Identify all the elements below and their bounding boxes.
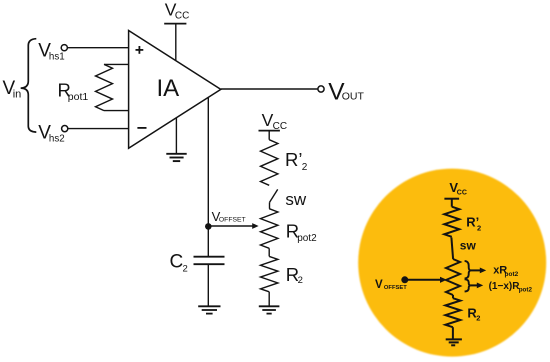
svg-text:2: 2 <box>298 275 303 286</box>
svg-text:pot1: pot1 <box>68 91 89 103</box>
wire arrow xRpot2 <box>471 269 481 271</box>
svg-text:OFFSET: OFFSET <box>384 285 407 291</box>
svg-text:(1−x)R: (1−x)R <box>489 281 521 292</box>
svg-text:C: C <box>170 252 184 273</box>
wire Rpot2 to R2 (inset) <box>452 295 454 298</box>
brace for Vin <box>21 39 37 132</box>
svg-text:2: 2 <box>302 162 308 173</box>
terminal Vhs1 <box>61 45 67 51</box>
ground (under IA) <box>166 154 186 161</box>
svg-text:sw: sw <box>460 238 477 252</box>
node VOFFSET label <box>212 209 246 224</box>
svg-text:hs2: hs2 <box>49 134 65 145</box>
pin - mark <box>137 127 146 129</box>
label C2 <box>170 252 188 275</box>
power VCC bar <box>164 23 186 25</box>
junction VOFFSET (inset) <box>401 276 408 283</box>
resistor Rpot1 <box>96 64 113 110</box>
terminal VOUT <box>318 86 324 92</box>
power VCC label (inset) <box>449 180 467 196</box>
brace lower (1-x)Rpot2 <box>465 279 471 291</box>
node Vin label <box>3 78 22 101</box>
svg-text:in: in <box>13 89 22 101</box>
node VOUT label <box>328 78 364 105</box>
svg-text:V: V <box>375 279 383 291</box>
node VOFFSET label (inset) <box>375 279 407 291</box>
wire + input <box>67 47 128 49</box>
ground (under C2) <box>198 306 220 313</box>
wire VCC to R'2 (inset) <box>451 199 453 207</box>
wire R2 to ground <box>268 292 270 306</box>
wire IA to ground <box>175 118 177 154</box>
svg-text:OFFSET: OFFSET <box>219 217 246 224</box>
terminal Vhs2 <box>62 126 68 132</box>
svg-text:pot2: pot2 <box>505 271 519 278</box>
wire arrow (1-x)Rpot2 <box>471 284 478 286</box>
wire - input <box>68 128 129 130</box>
svg-text:2: 2 <box>183 263 188 274</box>
wire wiper arrow <box>208 225 253 227</box>
resistor Rpot2 <box>261 209 278 249</box>
svg-text:pot2: pot2 <box>519 286 533 293</box>
svg-text:pot2: pot2 <box>297 233 317 244</box>
label Rpot2 <box>286 221 317 244</box>
node Vhs1 label <box>38 40 64 62</box>
wire sw to Rpot2 <box>269 202 271 208</box>
wire Rpot1 top stub <box>104 63 129 65</box>
wire output to VOFFSET node <box>207 98 209 256</box>
label R2 <box>286 264 303 286</box>
label Rpot1 <box>58 79 89 103</box>
svg-text:CC: CC <box>175 10 189 21</box>
inset highlight circle <box>358 169 546 357</box>
wire Rpot1 bottom stub <box>104 110 129 112</box>
power VCC label (over IA) <box>165 0 190 21</box>
switch sw blade (inset) <box>451 237 453 259</box>
wire Rpot2 to R2 <box>268 248 270 256</box>
power VCC label (chain) <box>262 110 287 132</box>
resistor R2 (inset) <box>445 298 460 327</box>
label (1-x)Rpot2 <box>489 281 533 294</box>
resistor R2 <box>261 256 278 291</box>
wire R2 to ground (inset) <box>452 327 454 339</box>
svg-text:OUT: OUT <box>342 91 365 103</box>
junction VOFFSET <box>205 223 212 230</box>
capacitor C2 <box>194 257 225 265</box>
wire output <box>221 88 318 90</box>
svg-text:hs1: hs1 <box>49 52 65 63</box>
brace upper xRpot2 <box>465 261 471 279</box>
switch sw blade <box>270 189 278 202</box>
label R2 (inset) <box>467 305 480 322</box>
node Vhs2 label <box>38 122 64 144</box>
op-amp IA triangle <box>129 31 221 149</box>
label R'2 (inset) <box>466 214 481 232</box>
svg-text:IA: IA <box>157 75 180 102</box>
ground (under R2) <box>259 306 280 313</box>
resistor Rpot2 (inset) <box>446 259 460 295</box>
label xRpot2 <box>493 265 518 278</box>
svg-text:R’: R’ <box>285 149 302 170</box>
svg-text:CC: CC <box>457 189 467 196</box>
resistor R'2 <box>261 140 278 186</box>
svg-text:sw: sw <box>285 190 307 209</box>
ground (inset) <box>446 339 462 345</box>
wire C2 to ground <box>207 264 209 306</box>
svg-text:2: 2 <box>477 223 481 232</box>
svg-text:2: 2 <box>476 313 480 322</box>
wire VCC to IA <box>175 24 177 61</box>
label R'2 <box>285 149 308 173</box>
resistor R'2 (inset) <box>444 207 459 237</box>
power VCC bar (chain) <box>259 130 280 132</box>
wire VCC to R'2 <box>268 131 270 140</box>
pin + mark <box>136 46 144 54</box>
wire wiper arrow (inset) <box>405 279 441 281</box>
power VCC bar (inset) <box>444 198 459 200</box>
